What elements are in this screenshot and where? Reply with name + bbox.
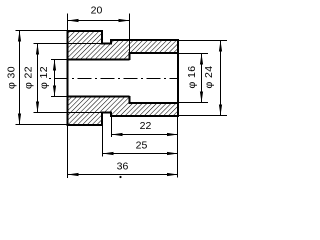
centerline [49, 78, 179, 80]
bore phi12 upper edge [68, 59, 130, 61]
dim 36: extension line left [67, 126, 69, 178]
svg-text:φ 30: φ 30 [5, 66, 17, 89]
dim phi24: extension lines [178, 41, 227, 116]
dim phi12: extension lines [51, 60, 68, 97]
dim phi30: dimension line [19, 31, 21, 125]
bore phi12 lower edge [68, 96, 130, 98]
dim phi16: extension lines [178, 54, 208, 103]
section hatch upper half [68, 31, 179, 60]
svg-text:φ 22: φ 22 [22, 66, 34, 89]
dim phi12: arrows [53, 60, 56, 97]
dim 36: dimension line [68, 174, 179, 176]
speck on dim 36 line [119, 176, 121, 178]
bore phi16 lower edge [130, 102, 179, 104]
dim phi22: dimension line [37, 44, 39, 113]
outer profile upper: flange top, flange right face, relief groove, body top edge [68, 30, 179, 44]
dim 20: extension lines [68, 14, 130, 53]
outer profile lower: flange bottom, flange right face, relief groove, body bottom edge [68, 113, 179, 127]
svg-text:φ 24: φ 24 [203, 65, 215, 88]
dim 22: extension lines [112, 117, 178, 178]
bore step face [129, 52, 131, 104]
dim phi16: arrows [200, 54, 203, 103]
dim 25: extension line [102, 126, 104, 157]
dim phi30: extension lines [16, 31, 68, 125]
dim 20: dimension line [68, 20, 130, 22]
dim 25: arrows [103, 152, 179, 155]
dim 20: arrows [68, 19, 130, 22]
svg-text:36: 36 [117, 160, 129, 172]
svg-text:φ 12: φ 12 [38, 66, 50, 89]
dim 22: arrows [112, 133, 179, 136]
dim 25: dimension line [103, 153, 179, 155]
dim phi22: extension lines [34, 44, 103, 113]
dim 36: arrows [68, 173, 179, 176]
dim 22: dimension line [112, 134, 179, 136]
section hatch lower half [68, 97, 179, 126]
dim phi16: dimension line [201, 54, 203, 103]
bore phi16 upper edge [130, 52, 179, 54]
svg-text:20: 20 [91, 5, 103, 17]
dim phi24: dimension line [220, 41, 222, 116]
dim phi22: arrows [36, 44, 39, 113]
dim phi24: arrows [219, 41, 222, 116]
svg-text:25: 25 [136, 140, 148, 152]
svg-text:22: 22 [140, 120, 152, 132]
dim phi30: arrows [18, 31, 21, 125]
left end face [67, 30, 69, 126]
right end face [177, 39, 179, 117]
dim phi12: dimension line [54, 60, 56, 97]
svg-text:φ 16: φ 16 [186, 65, 198, 88]
